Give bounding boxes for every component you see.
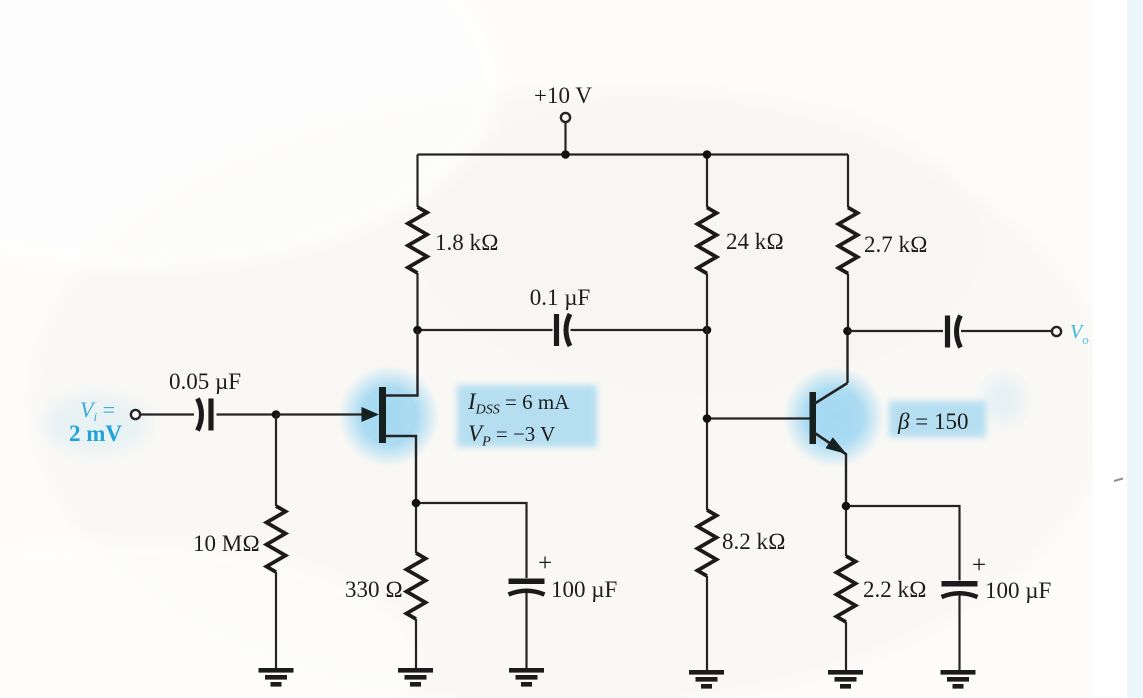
- wire top supply rail: [418, 153, 849, 155]
- resistor RE 2.2 kOhm: [837, 556, 927, 622]
- wire source node to bypass cap: [416, 503, 527, 668]
- wire output line: [848, 330, 1053, 332]
- output terminal Vo: [1052, 321, 1089, 347]
- svg-text:VP = −3 V: VP = −3 V: [468, 421, 555, 450]
- capacitor CS 100 uF: [509, 550, 618, 602]
- note box beta: [889, 401, 986, 437]
- junction divider node: [703, 326, 712, 335]
- glow highlight behind BJT Q2: [783, 366, 885, 468]
- faint blue smudge near input label: [44, 394, 148, 454]
- capacitor CE 100 uF: [942, 552, 1052, 603]
- note box IDSS / VP: [457, 385, 597, 450]
- svg-text:2 mV: 2 mV: [69, 421, 122, 446]
- wire base lead: [707, 417, 810, 419]
- JFET Q1: [362, 330, 418, 503]
- junction collector node: [843, 327, 852, 336]
- junction base node: [703, 414, 712, 423]
- wire divider column: [706, 155, 708, 671]
- svg-text:+: +: [538, 550, 552, 577]
- input terminal Vi: [69, 397, 140, 446]
- ground under CS: [509, 668, 544, 687]
- svg-text:8.2 kΩ: 8.2 kΩ: [722, 529, 786, 554]
- svg-text:2.2 kΩ: 2.2 kΩ: [863, 577, 927, 602]
- ground under 8.2k: [689, 670, 724, 689]
- glow highlight behind JFET Q1: [338, 365, 440, 467]
- wire input lead: [141, 413, 277, 415]
- svg-text:330 Ω: 330 Ω: [345, 577, 403, 602]
- svg-text:2.7 kΩ: 2.7 kΩ: [864, 232, 928, 257]
- svg-text:+: +: [972, 552, 986, 579]
- capacitor C3 output: [948, 316, 961, 348]
- ground under 2.2k: [828, 670, 863, 689]
- page-edge tick mark: [1114, 479, 1123, 482]
- resistor RD 1.8 kOhm: [408, 207, 499, 273]
- svg-text:1.8 kΩ: 1.8 kΩ: [435, 230, 499, 255]
- junction supply tap: [561, 150, 570, 159]
- junction source node: [412, 499, 421, 508]
- resistor RS 330 Ohm: [345, 553, 426, 619]
- wire coupling line drain to divider: [418, 329, 708, 331]
- svg-text:0.1 µF: 0.1 µF: [530, 285, 591, 310]
- ground under CE: [941, 670, 976, 689]
- faint blue smudge right of Q2: [984, 376, 1024, 424]
- resistor RC 2.7 kOhm: [839, 208, 928, 274]
- svg-text:Vi =: Vi =: [80, 397, 115, 424]
- ground under 330: [398, 668, 433, 687]
- resistor R2 8.2 kOhm: [698, 510, 786, 576]
- ground under 10M: [259, 668, 294, 687]
- junction 24k top: [703, 150, 712, 159]
- svg-text:0.05 µF: 0.05 µF: [169, 369, 241, 394]
- junction drain node: [413, 326, 422, 335]
- svg-text:24 kΩ: 24 kΩ: [726, 229, 784, 254]
- power terminal +10 V: [534, 83, 592, 155]
- wire gate lead: [276, 413, 364, 415]
- wire 1.8k column: [416, 155, 418, 331]
- wire emitter node to bypass cap: [846, 506, 960, 670]
- junction input node: [272, 410, 281, 419]
- svg-text:β = 150: β = 150: [897, 409, 968, 434]
- resistor R1 24 kOhm: [698, 208, 784, 274]
- svg-text:100 µF: 100 µF: [985, 578, 1051, 603]
- svg-text:+10 V: +10 V: [534, 83, 592, 108]
- wire 10M column: [275, 415, 277, 669]
- resistor RG 10 MOhm: [193, 506, 286, 572]
- svg-text:10 MΩ: 10 MΩ: [193, 531, 260, 556]
- capacitor C2 0.1 uF: [530, 285, 591, 346]
- capacitor C1 0.05 uF: [169, 369, 241, 431]
- svg-text:100 µF: 100 µF: [551, 577, 617, 602]
- BJT Q2: [810, 331, 848, 506]
- wire 2.7k column: [847, 155, 849, 332]
- junction emitter node: [842, 502, 851, 511]
